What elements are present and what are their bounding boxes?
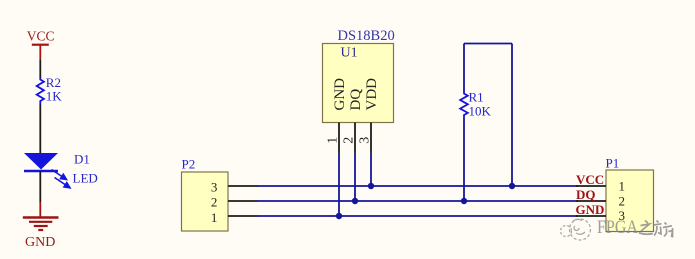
resistor R2	[37, 75, 63, 104]
svg-text:P2: P2	[182, 157, 196, 172]
junction R1 loop / VCC	[509, 183, 515, 189]
svg-text:1: 1	[619, 179, 626, 194]
svg-text:10K: 10K	[469, 104, 492, 119]
svg-text:1: 1	[326, 137, 341, 144]
svg-text:2: 2	[211, 195, 218, 210]
pin 3 stub	[228, 185, 258, 187]
wire R1 bottom to DQ net	[463, 118, 465, 201]
svg-text:3: 3	[211, 179, 218, 194]
wire D1 to GND	[39, 171, 41, 202]
ground	[23, 202, 59, 250]
pin 1 stub	[228, 215, 258, 217]
wire U1 pin3 to VCC net	[370, 153, 372, 186]
pin 1 stub	[576, 185, 606, 187]
pin 2	[354, 123, 356, 154]
svg-text:VDD: VDD	[364, 78, 380, 111]
svg-text:2: 2	[342, 137, 357, 144]
P1 body	[606, 170, 654, 232]
svg-text:FPGA: FPGA	[597, 218, 639, 238]
svg-text:GND: GND	[25, 235, 55, 250]
wire top horizontal	[464, 43, 512, 45]
svg-text:U1: U1	[341, 46, 358, 61]
pin 1	[338, 123, 340, 154]
wire VCC to R2	[39, 60, 41, 78]
wire U1 pin2 to DQ net	[354, 153, 356, 201]
junction R1 / DQ	[461, 198, 467, 204]
wire DQ net	[258, 200, 578, 202]
svg-text:R1: R1	[469, 90, 484, 105]
svg-text:GND: GND	[576, 202, 605, 217]
svg-text:3: 3	[358, 137, 373, 144]
junction U1 pin1 / GND	[336, 213, 342, 219]
pin 2 stub	[228, 200, 258, 202]
power symbol VCC	[27, 29, 55, 60]
IC U1 DS18B20	[323, 28, 395, 153]
svg-text:LED: LED	[73, 171, 98, 186]
svg-text:DQ: DQ	[348, 89, 364, 111]
resistor R1	[460, 90, 491, 119]
wire VCC net	[258, 185, 578, 187]
svg-text:2: 2	[619, 193, 626, 208]
svg-text:1: 1	[211, 210, 218, 225]
junction U1 pin2 / DQ	[352, 198, 358, 204]
LED D1	[24, 152, 98, 188]
wire R2 to D1	[39, 105, 41, 154]
svg-text:VCC: VCC	[576, 172, 604, 187]
watermark text FPGA and CJK strokes	[597, 218, 673, 238]
svg-text:VCC: VCC	[27, 29, 55, 44]
watermark logo	[561, 219, 591, 240]
pin 2 stub	[576, 200, 606, 202]
svg-text:D1: D1	[74, 152, 90, 167]
junction U1 pin3 / VCC	[368, 183, 374, 189]
pin 3 stub	[576, 215, 606, 217]
wire GND net	[258, 215, 578, 217]
connector P1	[576, 155, 654, 231]
svg-text:1K: 1K	[46, 88, 63, 103]
svg-text:P1: P1	[606, 155, 620, 170]
wire R1 top loop	[463, 44, 465, 92]
U1 body	[323, 44, 394, 123]
svg-text:GND: GND	[332, 78, 348, 111]
wire right vertical to VCC net	[511, 44, 513, 187]
P2 body	[182, 172, 229, 231]
svg-text:DQ: DQ	[576, 187, 596, 202]
svg-text:DS18B20: DS18B20	[338, 28, 395, 44]
pin 3	[370, 123, 372, 154]
connector P2	[182, 157, 259, 232]
wire U1 pin1 to GND net	[338, 153, 340, 216]
